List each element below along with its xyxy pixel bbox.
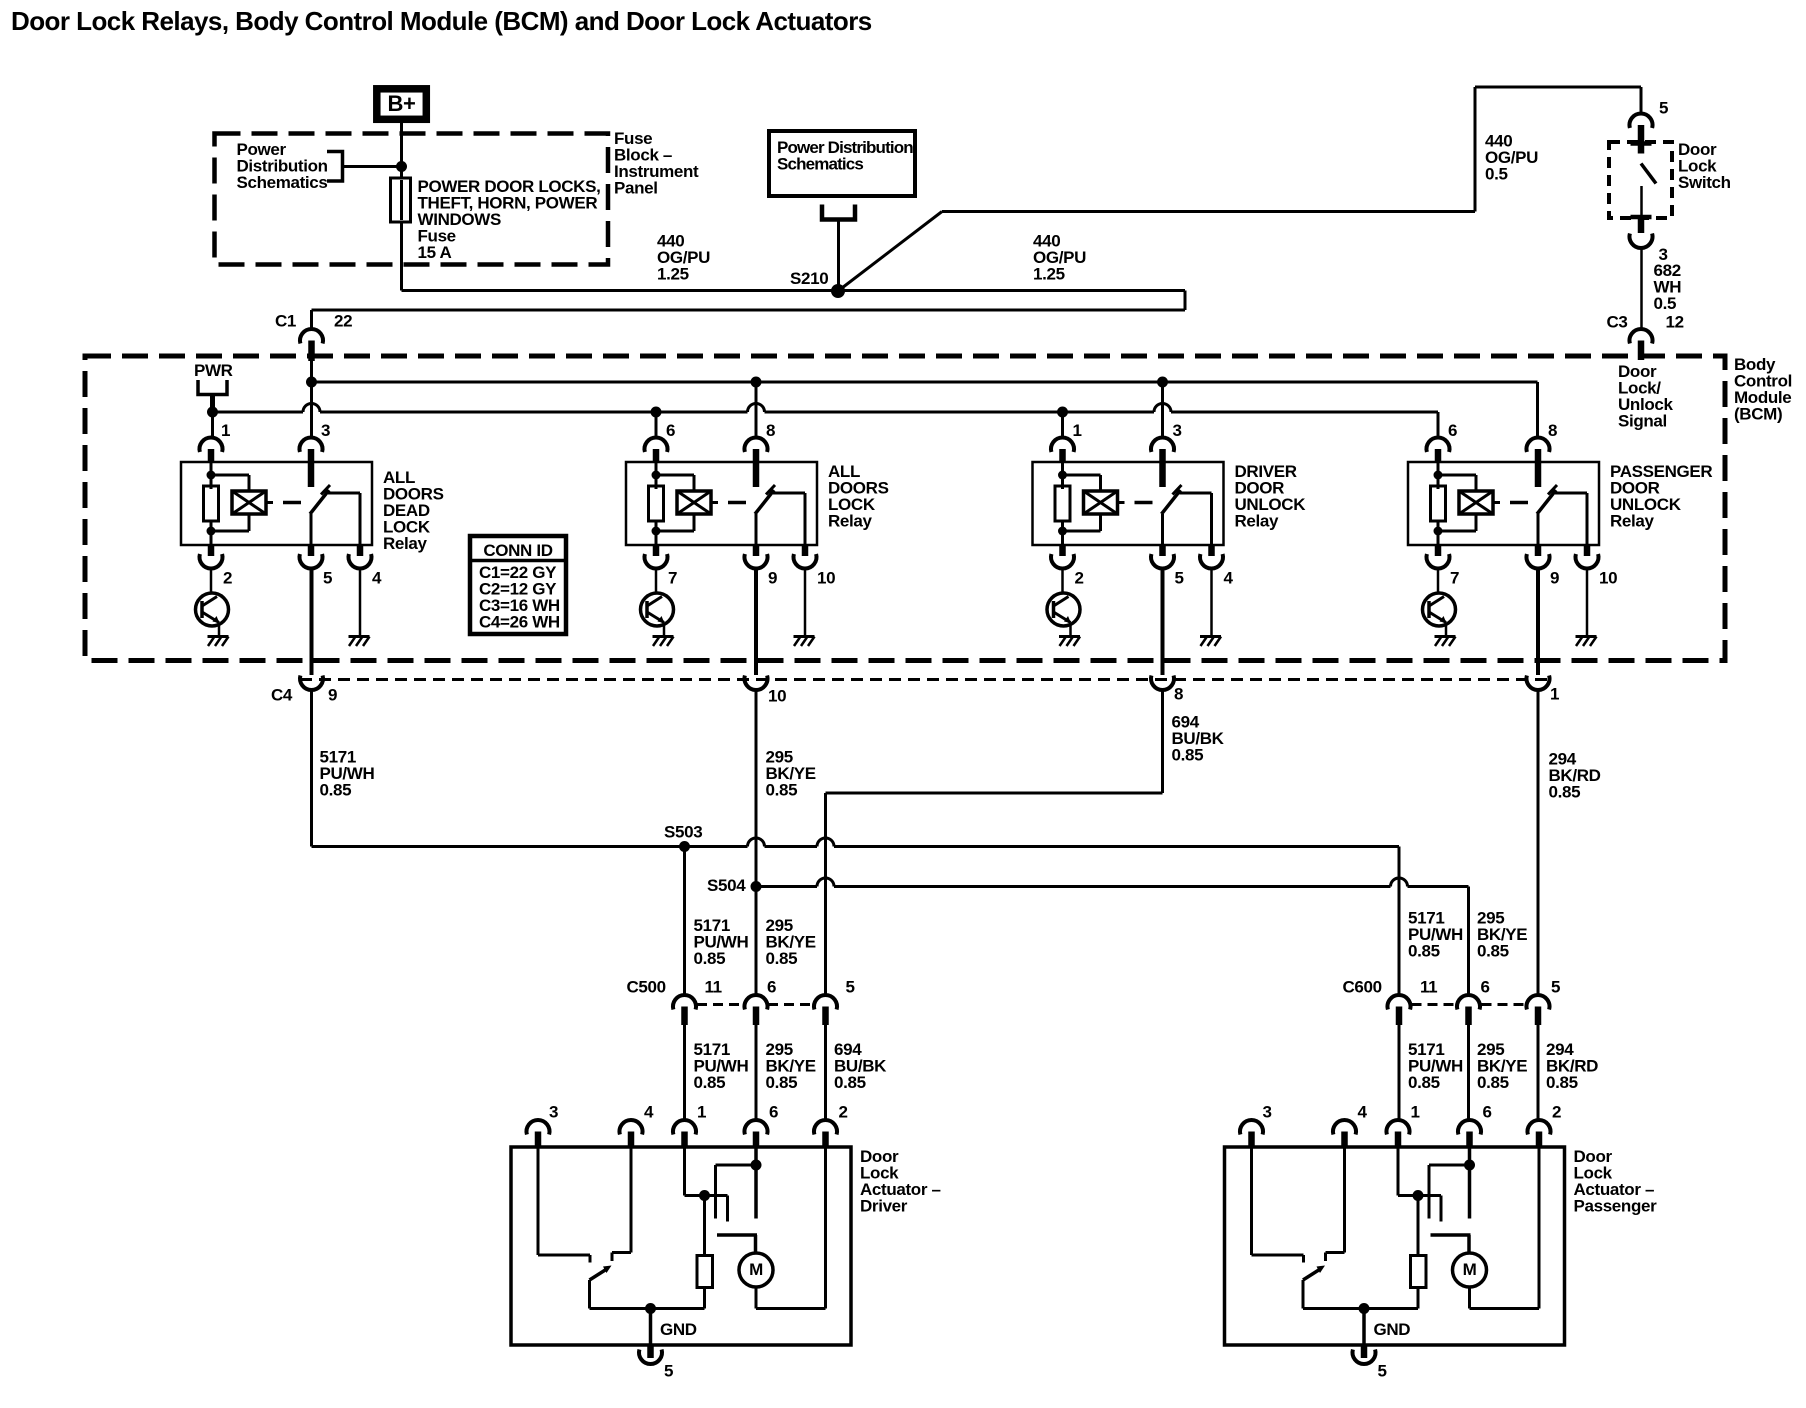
svg-text:6: 6 — [1481, 978, 1490, 997]
svg-text:Panel: Panel — [614, 179, 658, 198]
svg-text:3: 3 — [549, 1103, 558, 1122]
svg-text:7: 7 — [668, 569, 677, 588]
svg-text:10: 10 — [817, 569, 835, 588]
svg-text:2: 2 — [839, 1103, 848, 1122]
svg-text:4: 4 — [372, 569, 382, 588]
svg-text:5: 5 — [323, 569, 332, 588]
svg-text:22: 22 — [334, 312, 352, 331]
svg-text:0.85: 0.85 — [834, 1073, 866, 1092]
svg-text:S503: S503 — [664, 823, 702, 842]
svg-text:5: 5 — [1378, 1362, 1387, 1381]
svg-text:6: 6 — [1448, 421, 1457, 440]
svg-text:9: 9 — [328, 686, 337, 705]
svg-text:Switch: Switch — [1678, 173, 1731, 192]
svg-text:C3: C3 — [1607, 313, 1628, 332]
svg-text:B+: B+ — [387, 91, 415, 116]
svg-text:CONN ID: CONN ID — [483, 541, 552, 560]
svg-text:Passenger: Passenger — [1574, 1197, 1658, 1216]
svg-text:7: 7 — [1450, 569, 1459, 588]
svg-text:Relay: Relay — [1235, 512, 1280, 531]
svg-text:3: 3 — [321, 421, 330, 440]
svg-text:6: 6 — [1483, 1103, 1492, 1122]
svg-text:C4: C4 — [271, 686, 293, 705]
svg-text:Schematics: Schematics — [237, 173, 328, 192]
svg-text:Relay: Relay — [828, 512, 873, 531]
svg-text:0.85: 0.85 — [1477, 942, 1509, 961]
svg-text:Schematics: Schematics — [777, 155, 863, 174]
svg-text:15 A: 15 A — [418, 243, 452, 262]
svg-text:1.25: 1.25 — [1033, 265, 1065, 284]
svg-text:4: 4 — [644, 1103, 654, 1122]
svg-text:0.85: 0.85 — [1546, 1073, 1578, 1092]
svg-text:1: 1 — [1550, 685, 1559, 704]
svg-text:4: 4 — [1358, 1103, 1368, 1122]
svg-text:0.85: 0.85 — [694, 949, 726, 968]
svg-text:5: 5 — [846, 978, 855, 997]
svg-text:1.25: 1.25 — [657, 265, 689, 284]
svg-text:PWR: PWR — [194, 361, 233, 380]
svg-text:S210: S210 — [790, 269, 828, 288]
svg-text:Relay: Relay — [383, 534, 428, 553]
svg-text:Relay: Relay — [1610, 512, 1655, 531]
svg-text:C600: C600 — [1343, 978, 1382, 997]
svg-text:12: 12 — [1666, 313, 1684, 332]
svg-text:1: 1 — [1073, 421, 1082, 440]
svg-text:11: 11 — [1420, 978, 1437, 997]
svg-text:9: 9 — [768, 569, 777, 588]
svg-text:Signal: Signal — [1618, 412, 1667, 431]
svg-text:5: 5 — [664, 1362, 673, 1381]
svg-text:9: 9 — [1550, 569, 1559, 588]
svg-text:6: 6 — [767, 978, 776, 997]
svg-text:0.85: 0.85 — [1172, 746, 1204, 765]
svg-text:3: 3 — [1263, 1103, 1272, 1122]
svg-text:6: 6 — [666, 421, 675, 440]
svg-text:C500: C500 — [627, 978, 666, 997]
svg-text:4: 4 — [1224, 569, 1234, 588]
svg-text:8: 8 — [1548, 421, 1557, 440]
svg-text:5: 5 — [1551, 978, 1560, 997]
svg-text:0.85: 0.85 — [1477, 1073, 1509, 1092]
svg-text:0.85: 0.85 — [766, 949, 798, 968]
svg-text:8: 8 — [766, 421, 775, 440]
svg-text:M: M — [1463, 1260, 1477, 1279]
svg-text:0.5: 0.5 — [1485, 165, 1508, 184]
svg-text:0.85: 0.85 — [766, 781, 798, 800]
svg-text:0.85: 0.85 — [1549, 783, 1581, 802]
svg-text:11: 11 — [705, 978, 722, 997]
svg-text:1: 1 — [1411, 1103, 1420, 1122]
svg-text:10: 10 — [1599, 569, 1617, 588]
svg-text:GND: GND — [660, 1320, 697, 1339]
svg-text:0.85: 0.85 — [766, 1073, 798, 1092]
svg-text:10: 10 — [768, 687, 786, 706]
svg-text:8: 8 — [1174, 685, 1183, 704]
svg-text:6: 6 — [769, 1103, 778, 1122]
svg-text:0.85: 0.85 — [1408, 942, 1440, 961]
svg-text:GND: GND — [1374, 1320, 1411, 1339]
svg-text:2: 2 — [1552, 1103, 1561, 1122]
svg-text:C1: C1 — [275, 312, 296, 331]
svg-text:C4=26 WH: C4=26 WH — [479, 613, 560, 632]
svg-text:2: 2 — [1075, 569, 1084, 588]
svg-text:0.85: 0.85 — [694, 1073, 726, 1092]
svg-text:3: 3 — [1173, 421, 1182, 440]
svg-text:Door Lock Relays, Body Control: Door Lock Relays, Body Control Module (B… — [11, 6, 872, 36]
svg-text:2: 2 — [223, 569, 232, 588]
svg-text:5: 5 — [1659, 99, 1668, 118]
svg-text:0.85: 0.85 — [1408, 1073, 1440, 1092]
svg-text:M: M — [749, 1260, 763, 1279]
svg-text:5: 5 — [1175, 569, 1184, 588]
svg-text:Driver: Driver — [860, 1197, 908, 1216]
svg-text:0.5: 0.5 — [1654, 294, 1677, 313]
svg-text:0.85: 0.85 — [320, 781, 352, 800]
svg-text:(BCM): (BCM) — [1734, 405, 1782, 424]
svg-text:S504: S504 — [707, 876, 746, 895]
svg-text:1: 1 — [221, 421, 230, 440]
svg-text:1: 1 — [697, 1103, 706, 1122]
